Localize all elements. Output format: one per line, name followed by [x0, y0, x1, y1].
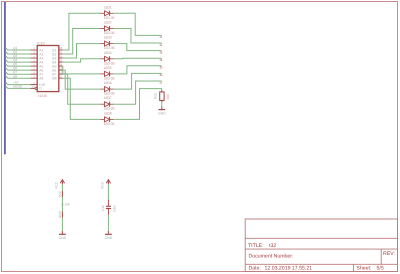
title block — [245, 219, 397, 272]
wire B6 to LED6 — [63, 70, 101, 89]
svg-text:LED-3S: LED-3S — [104, 61, 116, 65]
wire LED2 cathode to net stub — [114, 29, 162, 44]
LED2 diode symbol — [100, 26, 114, 31]
pin DIR — [30, 84, 37, 86]
LED3 diode symbol — [100, 41, 114, 46]
svg-text:A8: A8 — [39, 77, 43, 81]
wire net Q4 bus to pin A4 — [6, 60, 31, 62]
power gate IC10P wire VCC to GND — [61, 184, 63, 231]
ground symbol GND2 — [61, 231, 63, 234]
svg-text:LED7: LED7 — [104, 96, 112, 100]
wire net Q2 bus to pin A2 — [6, 52, 31, 54]
pin A8 left — [30, 77, 37, 79]
svg-text:LED3: LED3 — [104, 36, 112, 40]
wire B8 to LED8 — [63, 78, 101, 119]
svg-text:LED-3S: LED-3S — [104, 46, 116, 50]
wire B1 to LED1 — [63, 13, 101, 50]
resistor R1 — [161, 90, 163, 92]
svg-text:GND: GND — [59, 236, 67, 240]
svg-text:IC10: IC10 — [37, 41, 45, 45]
svg-text:AGND: AGND — [13, 85, 23, 89]
bus B1 — [4, 2, 6, 154]
svg-text:t6: t6 — [160, 73, 163, 77]
capacitor C10 — [106, 205, 111, 207]
svg-text:B8: B8 — [52, 77, 56, 81]
svg-text:12.03.2019 17.55.21: 12.03.2019 17.55.21 — [265, 266, 313, 272]
pin B2 right — [59, 53, 63, 55]
svg-text:GND: GND — [158, 112, 166, 116]
pin B1 right — [59, 49, 63, 51]
pin A3 left — [30, 57, 37, 59]
wire net Q8 bus to pin A8 — [6, 76, 31, 78]
svg-text:t3: t3 — [160, 50, 163, 54]
svg-text:220: 220 — [166, 94, 170, 100]
svg-text:LED4: LED4 — [104, 51, 112, 55]
LED6 diode symbol — [100, 87, 114, 92]
pin B5 right — [59, 65, 63, 67]
pin A6 left — [30, 69, 37, 71]
svg-text:5/5: 5/5 — [377, 266, 384, 272]
wire net Q7 bus to pin A7 — [6, 72, 31, 74]
svg-text:LED6: LED6 — [104, 81, 112, 85]
svg-text:LED5: LED5 — [104, 66, 112, 70]
svg-text:19: 19 — [32, 85, 36, 89]
pin A5 left — [30, 65, 37, 67]
pin B6 right — [59, 69, 63, 71]
svg-text:11: 11 — [59, 74, 62, 78]
pin B3 right — [59, 57, 63, 59]
wire B2 to LED2 — [63, 29, 101, 55]
ground symbol GND3 — [107, 231, 109, 234]
svg-text:GND: GND — [105, 236, 113, 240]
wire LED7 cathode to net stub — [114, 81, 162, 104]
svg-text:74245: 74245 — [37, 94, 47, 98]
svg-text:Document Number:: Document Number: — [249, 254, 294, 260]
wire VCC to C10 — [107, 184, 109, 200]
pin B8 right — [59, 77, 63, 79]
svg-text:t7: t7 — [160, 81, 163, 85]
wire net Q5 bus to pin A5 — [6, 64, 31, 66]
wire B7 to LED7 — [63, 74, 101, 104]
LED8 diode symbol — [100, 117, 114, 122]
wire net Q6 bus to pin A6 — [6, 68, 31, 70]
pin B7 right — [59, 73, 63, 75]
wire LED1 cathode to net stub — [114, 13, 162, 35]
svg-text:LED2: LED2 — [104, 21, 112, 25]
wire LED3 cathode to net stub — [114, 44, 162, 51]
pin B4 right — [59, 61, 63, 63]
pin A1 left — [30, 49, 37, 51]
svg-text:LED-3S: LED-3S — [104, 107, 116, 111]
supply symbol VCC (power gate) — [60, 180, 64, 185]
pin G with bubble — [30, 87, 35, 89]
wire net +5V bus to pin DIR — [6, 82, 31, 84]
wire LED6 cathode to net stub — [114, 73, 162, 89]
pin A4 left — [30, 61, 37, 63]
svg-text:LED-3S: LED-3S — [104, 16, 116, 20]
svg-text:G: G — [39, 87, 42, 91]
svg-text:REV:: REV: — [383, 251, 395, 257]
svg-text:Q8: Q8 — [13, 74, 17, 78]
pin A2 left — [30, 53, 37, 55]
svg-text:100n: 100n — [112, 205, 116, 212]
LED1 diode symbol — [100, 11, 114, 16]
svg-text:VCC: VCC — [58, 190, 62, 197]
wire B4 to LED4 — [63, 59, 101, 62]
LED4 diode symbol — [100, 56, 114, 61]
svg-text:t1: t1 — [160, 35, 163, 39]
svg-text:t2: t2 — [160, 43, 163, 47]
svg-text:t32: t32 — [269, 243, 276, 249]
wire C10 to GND — [107, 209, 109, 215]
IC IC10 74245 body — [37, 46, 59, 92]
svg-text:R10: R10 — [154, 93, 158, 99]
svg-text:C10: C10 — [101, 205, 105, 211]
LED5 diode symbol — [100, 71, 114, 76]
LED7 diode symbol — [100, 102, 114, 107]
wire LED8 cathode to net stub — [114, 89, 162, 120]
svg-text:Sheet:: Sheet: — [356, 266, 371, 272]
svg-text:LED1: LED1 — [104, 5, 112, 9]
svg-text:t4: t4 — [160, 58, 163, 62]
wire B5 to LED5 — [63, 66, 101, 74]
svg-text:LED-3S: LED-3S — [104, 76, 116, 80]
wire LED5 cathode to net stub — [114, 66, 162, 74]
wire net Q1 bus to pin A1 — [6, 48, 31, 50]
svg-text:GND: GND — [58, 210, 62, 218]
svg-text:IC10P: IC10P — [61, 202, 70, 206]
svg-text:Date:: Date: — [249, 266, 261, 272]
wire net GND bus to pin G — [6, 86, 31, 88]
wire resistor to GND — [161, 102, 163, 106]
svg-text:TITLE:: TITLE: — [248, 243, 264, 249]
svg-text:LED-3S: LED-3S — [104, 92, 116, 96]
svg-text:LED-3S: LED-3S — [104, 31, 116, 35]
wire B3 to LED3 — [63, 44, 101, 58]
wire net Q3 bus to pin A3 — [6, 56, 31, 58]
svg-text:VCC: VCC — [55, 181, 59, 189]
svg-text:LED8: LED8 — [104, 111, 112, 115]
pin A7 left — [30, 73, 37, 75]
supply symbol VCC (cap) — [106, 180, 110, 185]
svg-text:VCC: VCC — [101, 181, 105, 189]
ground symbol GND1 — [158, 109, 165, 111]
svg-text:LED-3S: LED-3S — [104, 122, 116, 126]
wire LED4 cathode to net stub — [114, 57, 162, 60]
svg-text:t5: t5 — [160, 66, 163, 70]
